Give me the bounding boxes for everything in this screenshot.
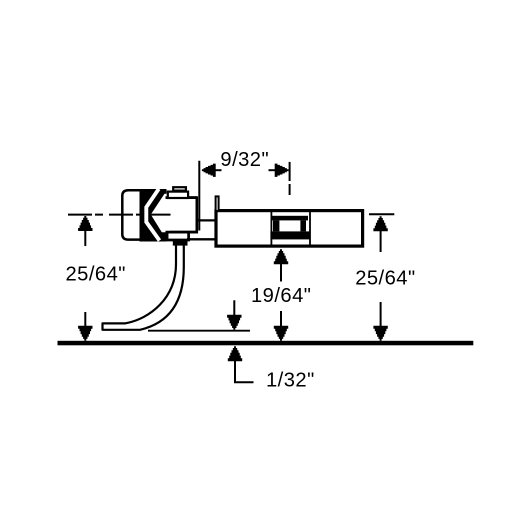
top tab bump — [173, 187, 186, 190]
svg-text:1/32": 1/32" — [266, 370, 315, 392]
dim 25/64 left: down arrow — [84, 312, 86, 326]
dim 25/64 left: up arrow — [78, 216, 92, 231]
dim 1/32: up arrow below rail — [228, 346, 242, 361]
svg-text:25/64": 25/64" — [66, 263, 126, 285]
knuckle face block (black) — [140, 189, 167, 242]
dim 1/32: leader line — [235, 360, 254, 383]
svg-text:9/32": 9/32" — [220, 149, 269, 171]
dim 25/64 right: extension line at centerline height — [369, 213, 394, 215]
dim 25/64 right: down arrow — [380, 302, 382, 326]
dim 9/32: right extension line — [289, 162, 291, 181]
spring left post — [273, 220, 279, 231]
knuckle — [122, 190, 143, 239]
lid guide line right — [309, 212, 311, 246]
dim 9/32: left arrow — [202, 164, 216, 177]
centerline (dash-dot) — [68, 214, 171, 216]
spring right post — [300, 220, 306, 231]
white chevron highlight — [146, 189, 159, 241]
trip pin — [103, 241, 184, 330]
shank bottom line — [187, 238, 216, 240]
dim 1/32: down arrow to pin line — [233, 300, 235, 315]
dim 9/32: right extension dash — [289, 184, 291, 195]
coupler head body — [168, 198, 197, 233]
top tab base — [168, 192, 188, 198]
trip pin mount — [173, 240, 188, 246]
lid guide line left — [270, 212, 272, 246]
rail (track top surface line) — [58, 341, 474, 346]
trip pin height extension line — [148, 330, 250, 332]
box front tab — [216, 196, 219, 211]
dim 25/64 right: up arrow — [373, 216, 387, 231]
svg-text:25/64": 25/64" — [355, 267, 415, 289]
svg-text:19/64": 19/64" — [251, 285, 311, 307]
dim 19/64: up arrow at box bottom — [274, 249, 288, 264]
spring top bar — [271, 216, 308, 221]
head body bottom edge — [166, 231, 198, 234]
head interior wedge — [151, 194, 170, 232]
dim 9/32: left extension line — [198, 161, 200, 231]
draft gear box — [216, 211, 363, 247]
bottom tab — [167, 233, 189, 240]
dim 19/64: down arrow — [280, 311, 282, 327]
spring bottom bar — [270, 231, 310, 239]
head body top edge — [166, 196, 197, 199]
dim 9/32: right arrow — [275, 164, 289, 177]
shank top line — [196, 219, 216, 221]
